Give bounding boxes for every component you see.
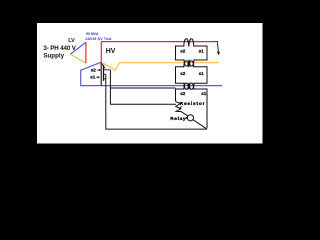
- transistor Q1: gate bar: [100, 62, 102, 86]
- resistor R1: zigzag symbol: [176, 101, 182, 111]
- wire: red drop to diverter apex: [100, 42, 102, 63]
- svg-text:LV: LV: [68, 38, 75, 44]
- LV delta winding: blue side: [70, 42, 86, 54]
- selector box S-Y (middle): outline: [176, 67, 208, 83]
- selector box S-Y: bottom contact humps over blue bus: [184, 83, 194, 90]
- wire: V1 from diverter down then right to relay corner: [106, 74, 207, 129]
- selector box S-R: top contact humps over red bus: [184, 39, 194, 47]
- transistor Q1: drain lead from apex: [101, 63, 105, 68]
- svg-text:s2: s2: [180, 49, 186, 54]
- wire: tap lead A to selector box 3: [110, 87, 175, 89]
- svg-text:3- PH 440 V: 3- PH 440 V: [43, 45, 76, 52]
- label Resistor with arrow: [179, 101, 205, 109]
- transistor Q1 (diverter switch): channel bar: [103, 65, 105, 81]
- video frame background: [0, 0, 300, 168]
- svg-text:s1: s1: [90, 75, 96, 80]
- wire: red phase line (HV bus R): [101, 41, 215, 43]
- label 3- PH 440 V Supply: [43, 45, 76, 60]
- svg-text:s1: s1: [201, 91, 207, 96]
- selector box S-Y: top contact humps over yellow bus: [184, 61, 194, 68]
- wire: V2 from diverter down then right to resistor: [110, 70, 176, 105]
- selector box S-B: top contact humps over blue bus: [184, 83, 194, 90]
- arrow at red line end: [215, 42, 220, 56]
- svg-text:HV: HV: [106, 46, 116, 55]
- LV delta winding: yellow side: [70, 54, 86, 63]
- selector box S-R (top): outline: [176, 46, 208, 60]
- svg-text:132/33 KV Txst: 132/33 KV Txst: [85, 37, 112, 41]
- svg-text:s1: s1: [199, 49, 205, 54]
- svg-text:s2: s2: [180, 71, 186, 76]
- selector box S-B (bottom): outline: [176, 89, 208, 128]
- svg-text:s2: s2: [91, 67, 97, 72]
- label s1 at diverter with arrow: [90, 75, 100, 80]
- transistor Q1: three leads: [104, 70, 111, 79]
- svg-text:Resistor: Resistor: [180, 101, 205, 107]
- white drawing canvas: [37, 23, 263, 144]
- label Relay with arrow: [170, 116, 188, 122]
- svg-text:s1: s1: [199, 71, 205, 76]
- LV delta winding: red side: [85, 42, 87, 63]
- svg-text:Supply: Supply: [43, 53, 64, 60]
- selector box S-R: bottom contact humps over yellow bus: [184, 59, 194, 66]
- wire: blue phase line (HV bus B) with diverter enclosure: [81, 62, 222, 85]
- label s2 at diverter with arrow: [91, 67, 101, 72]
- wire: relay diagonal: [181, 112, 207, 130]
- relay K1: coil circle: [187, 115, 193, 121]
- wire: yellow phase line (HV bus Y) with kink: [101, 62, 219, 70]
- svg-text:s2: s2: [180, 91, 186, 96]
- svg-text:50 MVA: 50 MVA: [86, 32, 99, 36]
- svg-text:Relay: Relay: [170, 116, 186, 122]
